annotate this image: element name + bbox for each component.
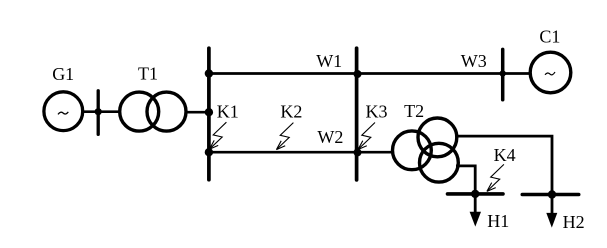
junction dot on bar bbox=[95, 108, 102, 115]
junction dot H2 bbox=[548, 190, 556, 198]
G1 tilde bbox=[58, 112, 68, 115]
left busbar bbox=[207, 48, 211, 180]
junction dot T1-busbar bbox=[205, 108, 213, 116]
junction dot W2 right busbar bbox=[354, 148, 362, 156]
C1 tilde bbox=[545, 72, 555, 75]
fault K1 bolt bbox=[209, 122, 226, 149]
svg-text:W2: W2 bbox=[317, 127, 343, 147]
right busbar bbox=[355, 48, 359, 180]
load H1 bar bbox=[448, 192, 504, 196]
svg-text:T1: T1 bbox=[138, 64, 158, 84]
svg-text:K4: K4 bbox=[494, 145, 516, 165]
generator G1 bbox=[44, 92, 83, 131]
connection bar between G1 and T1 bbox=[97, 91, 100, 135]
svg-text:C1: C1 bbox=[539, 27, 560, 47]
svg-text:T2: T2 bbox=[404, 101, 424, 121]
svg-text:W1: W1 bbox=[316, 51, 342, 71]
junction dot H1 bbox=[471, 190, 479, 198]
fault K4 bolt bbox=[487, 164, 504, 191]
junction dot W2 left busbar bbox=[205, 148, 213, 156]
wire T2 bottom winding to H1 bbox=[456, 166, 475, 194]
wire W1 bbox=[209, 72, 529, 75]
svg-text:K1: K1 bbox=[217, 101, 239, 121]
W3 connection bar bbox=[501, 49, 505, 99]
svg-text:H2: H2 bbox=[563, 212, 585, 232]
junction dot W3 bar bbox=[500, 70, 506, 76]
wire G1 to T1 bbox=[83, 110, 120, 113]
transformer T1 bbox=[120, 92, 159, 131]
load H1 arrowhead bbox=[470, 212, 481, 227]
wire T1 to left busbar bbox=[186, 111, 209, 114]
fault K2 bolt bbox=[276, 123, 293, 150]
wire W2 bbox=[209, 151, 392, 154]
svg-text:W3: W3 bbox=[461, 51, 487, 71]
wire T2 top winding to H2 bbox=[455, 136, 552, 194]
load H2 arrow stem bbox=[551, 195, 554, 215]
junction dot W1 left busbar bbox=[205, 69, 213, 77]
load H2 bar bbox=[522, 193, 578, 197]
svg-text:K3: K3 bbox=[366, 101, 388, 121]
transformer T2 (three winding) bbox=[393, 131, 432, 170]
svg-text:H1: H1 bbox=[487, 211, 509, 231]
svg-text:K2: K2 bbox=[280, 101, 302, 121]
fault K3 bolt bbox=[358, 123, 375, 150]
load H2 arrowhead bbox=[546, 213, 557, 228]
junction dot W1 right busbar bbox=[354, 70, 362, 78]
compensator C1 bbox=[530, 52, 571, 93]
load H1 arrow stem bbox=[474, 194, 477, 214]
svg-text:G1: G1 bbox=[52, 64, 74, 84]
